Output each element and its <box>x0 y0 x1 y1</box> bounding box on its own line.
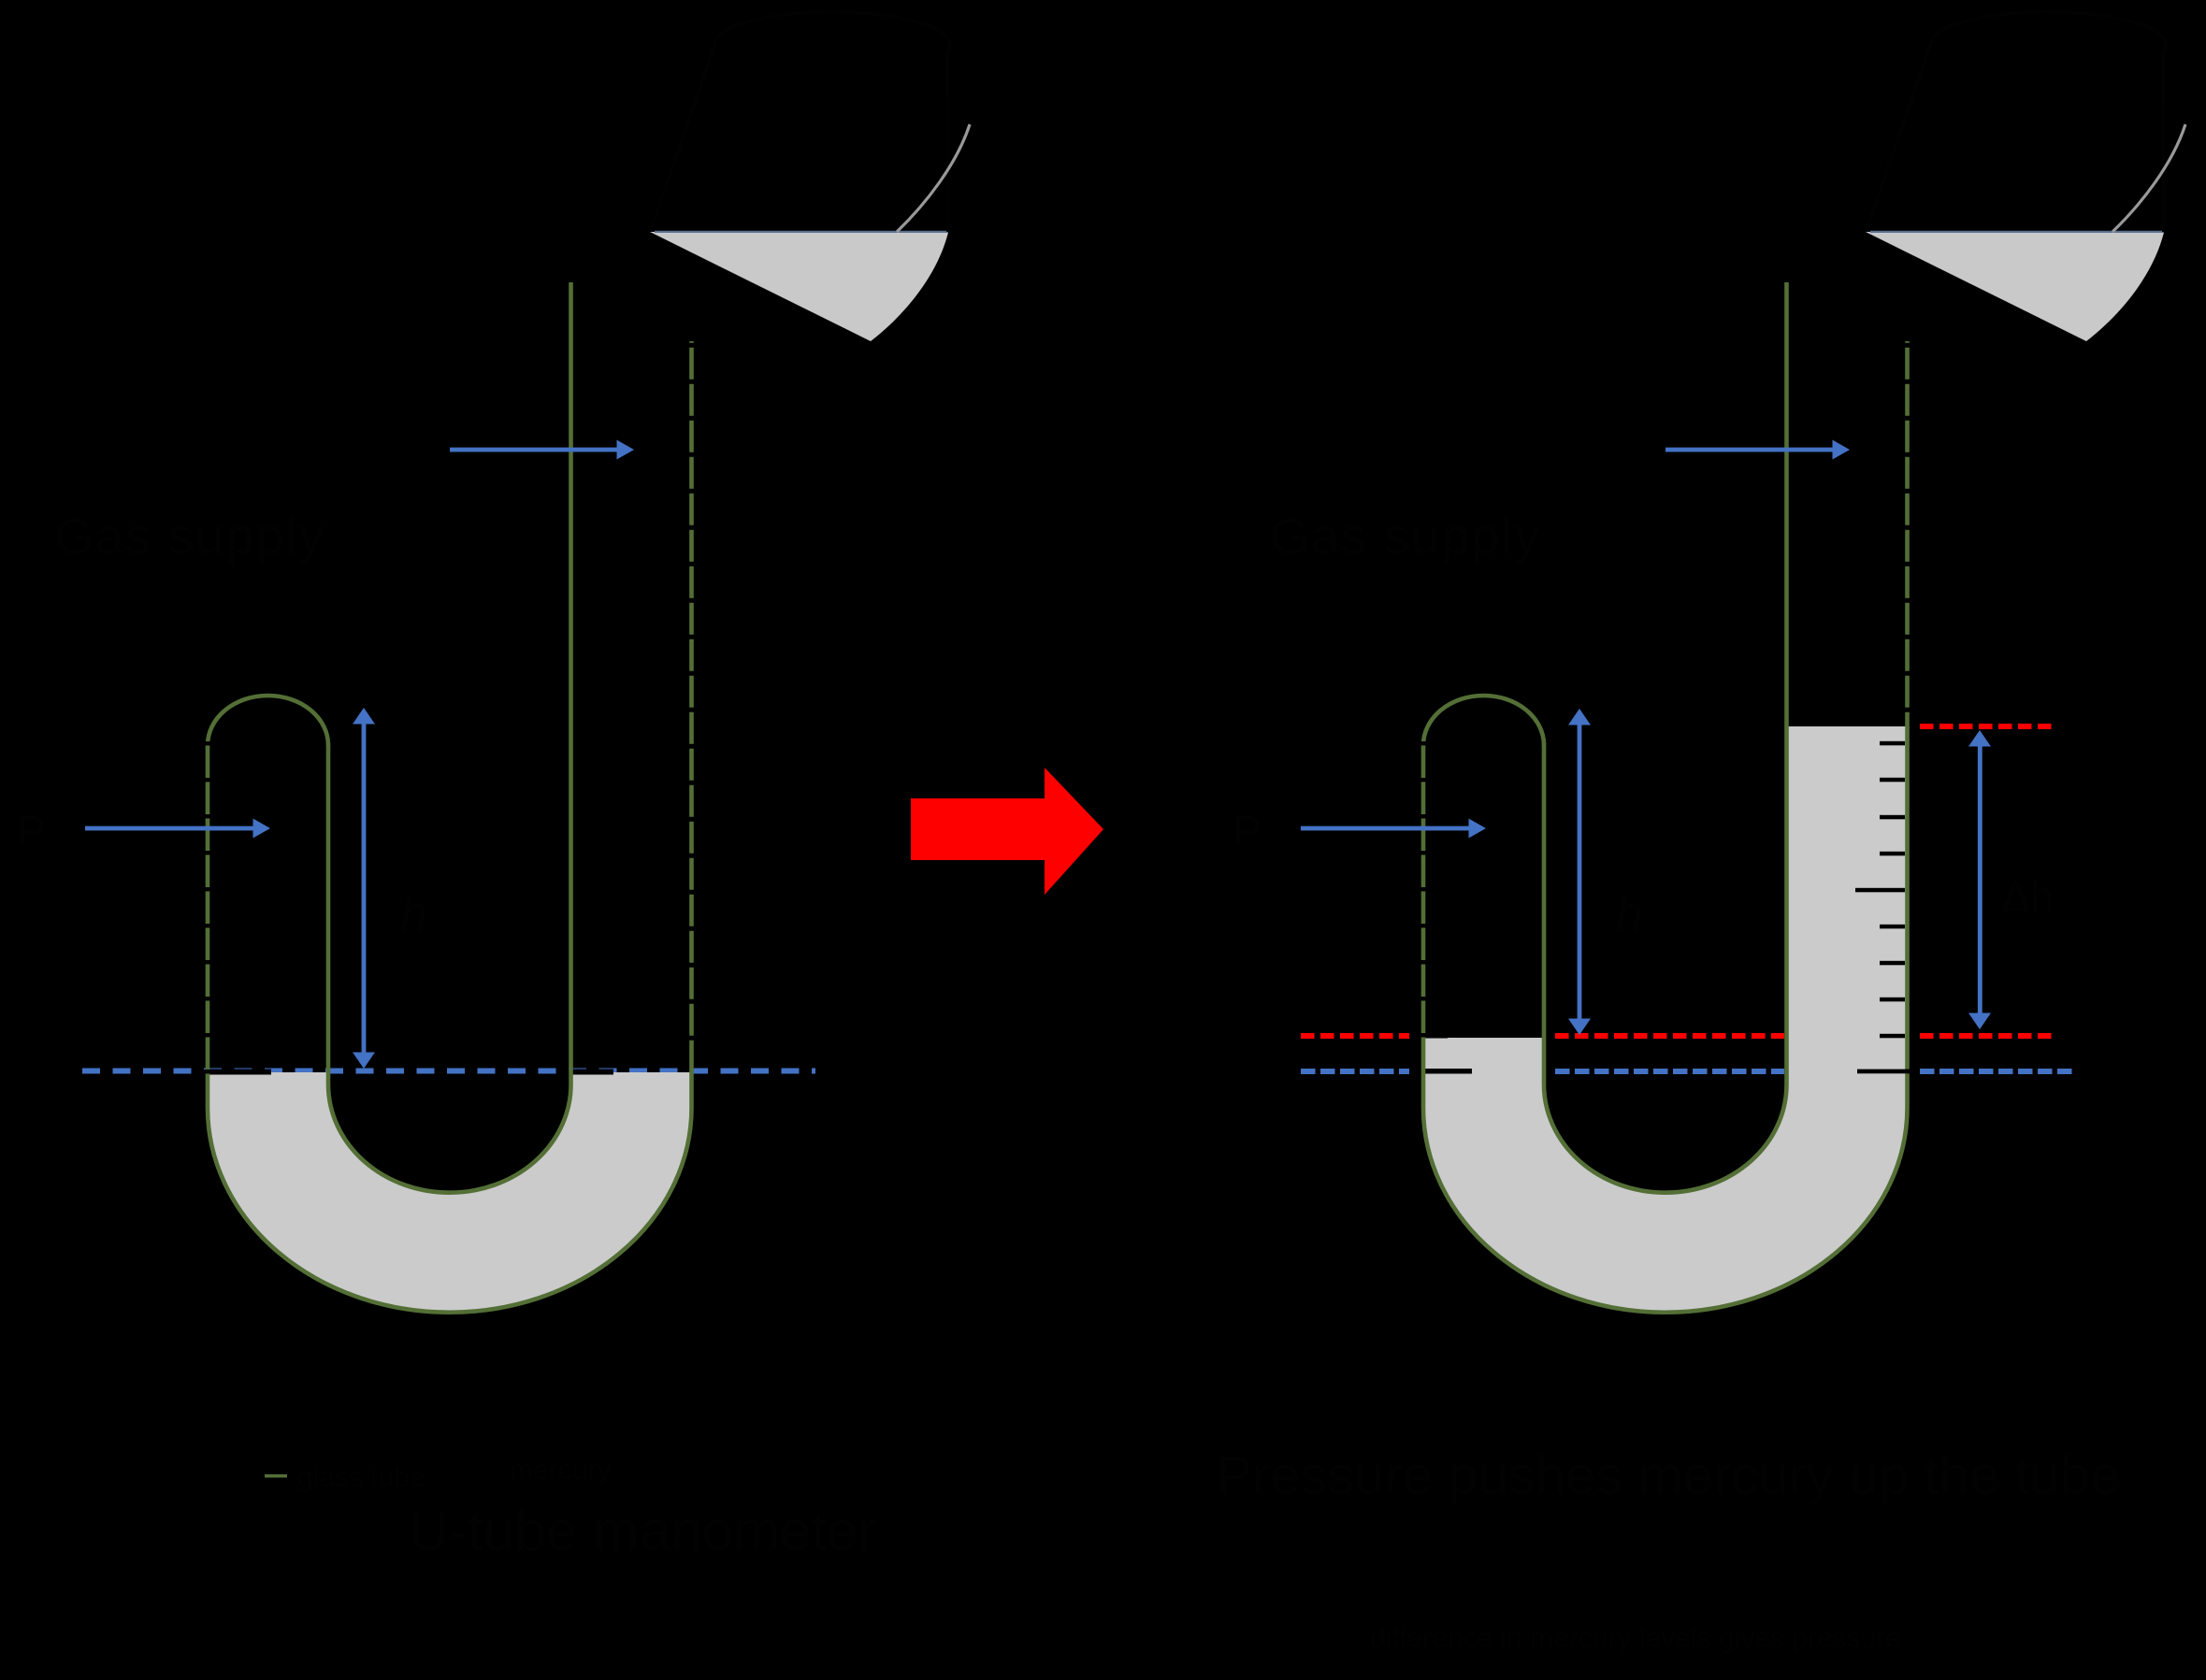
red dashed line upper (right diagram) <box>1920 724 2055 729</box>
ruler ticks on closed arm wall (right) <box>1416 741 1431 1037</box>
funnel outline (black, near-invisible) <box>650 12 950 340</box>
funnel water line (thin blue) <box>655 231 946 233</box>
funnel spout thin curve <box>897 124 970 232</box>
red dashed line lower (right diagram) <box>1301 1033 2055 1039</box>
svg-text:difference in mercury levels g: difference in mercury levels gives press… <box>1370 1623 1901 1654</box>
meniscus black line left bore <box>209 1070 271 1075</box>
tube inner wall solid (left) <box>328 282 571 1193</box>
tube outer wall solid (left) <box>208 743 692 1313</box>
liquid fill (right U) <box>1423 726 1908 1313</box>
blue vertical double arrow h (right inner) <box>1568 709 1591 1035</box>
blue vertical double arrow h (left) <box>353 708 375 1069</box>
tube inner wall solid (right) <box>1544 282 1787 1193</box>
svg-text:Gas supply: Gas supply <box>1270 509 1541 565</box>
funnel bowl gray fill right <box>1866 232 2164 341</box>
tube closed-end cap (right) <box>1423 696 1544 745</box>
meniscus black line right-diagram left bore <box>1420 1033 1448 1039</box>
svg-text:glass tube: glass tube <box>297 1462 425 1493</box>
blue horizontal arrow gas-in (left, upper) <box>450 440 634 460</box>
funnel water line right <box>1870 231 2162 233</box>
blue horizontal arrow gas-in (left, lower) <box>85 819 270 839</box>
svg-text:Gas supply: Gas supply <box>54 509 325 565</box>
original level black line in left bore (right diagram) <box>1421 1069 1472 1074</box>
legend green dash <box>265 1474 287 1478</box>
funnel spout thin curve right <box>2112 124 2185 232</box>
blue horizontal arrow gas-in (right, lower) <box>1301 819 1486 839</box>
tube closed-end cap (left) <box>208 696 328 745</box>
blue horizontal arrow gas-in (right, upper) <box>1665 440 1850 460</box>
measuring scale ticks in open arm (right) <box>1855 741 1910 1073</box>
svg-text:U-tube manometer: U-tube manometer <box>409 1500 876 1562</box>
svg-text:h: h <box>400 887 427 941</box>
blue dashed level line (right diagram) <box>1301 1069 2074 1074</box>
svg-text:h: h <box>1616 887 1643 941</box>
funnel bowl gray fill <box>650 232 948 341</box>
blue vertical double arrow delta-h (right outer) <box>1968 730 1991 1029</box>
tube outer wall dashed upper (right) <box>1905 341 1910 725</box>
tube outer wall solid (right) <box>1423 725 1908 1313</box>
blue dashed level line (left) <box>82 1069 815 1074</box>
liquid fill (left U) <box>208 1072 692 1313</box>
ruler ticks on closed arm wall (left) <box>200 741 215 1073</box>
svg-text:Δh: Δh <box>2001 872 2054 921</box>
tube outer wall dashed upper (left) <box>689 341 694 1071</box>
svg-text:P: P <box>17 807 46 855</box>
svg-text:Pressure pushes mercury up the: Pressure pushes mercury up the tube <box>1216 1445 2120 1506</box>
meniscus black line right bore <box>565 1070 613 1075</box>
funnel outline right (black, near-invisible) <box>1866 12 2166 340</box>
svg-text:mercury: mercury <box>510 1455 611 1486</box>
svg-text:P: P <box>1233 807 1262 855</box>
